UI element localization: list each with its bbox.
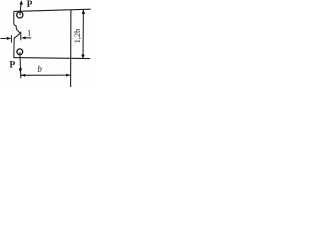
svg-text:P: P <box>27 0 33 10</box>
svg-text:1: 1 <box>27 28 31 38</box>
svg-text:b: b <box>37 64 42 74</box>
svg-text:P: P <box>9 61 15 71</box>
svg-text:1,2b: 1,2b <box>73 29 82 44</box>
